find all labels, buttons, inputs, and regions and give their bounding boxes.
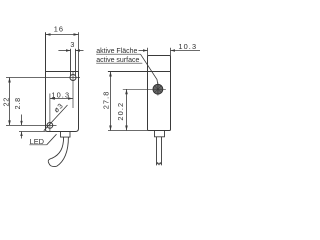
top mounting hole crosshair (70, 75, 76, 81)
side view seam line (108, 71, 171, 73)
svg-text:16: 16 (54, 25, 64, 34)
dimension 3 (58, 50, 83, 52)
active surface circle centerlines (123, 88, 166, 90)
svg-text:27.8: 27.8 (102, 91, 111, 110)
mounting slot 3mm lines (70, 49, 72, 76)
LED leader (47, 134, 57, 145)
svg-text:10.3: 10.3 (178, 42, 197, 51)
front view body outline (46, 32, 79, 131)
bottom hole centerline (6, 124, 57, 126)
active surface circle (153, 84, 163, 94)
svg-text:2.8: 2.8 (13, 97, 22, 109)
side view body outline (148, 56, 171, 131)
svg-text:3: 3 (70, 40, 74, 49)
bottom mounting hole crosshair (47, 123, 53, 129)
dimension 20.2 (126, 89, 128, 130)
27.8 bottom extension (108, 130, 148, 132)
side cable (157, 137, 162, 165)
svg-text:20.2: 20.2 (116, 102, 125, 121)
dimension 27.8 (110, 72, 112, 131)
top hole centerline (22 extension) (6, 77, 80, 79)
dimension 16 (46, 32, 79, 71)
front view top edge (46, 71, 79, 73)
dimension 10.3 front (50, 98, 73, 100)
dimension 22 (9, 78, 11, 126)
svg-text:ø3: ø3 (52, 101, 65, 114)
leader diameter 3 (44, 105, 68, 131)
front cable gland (61, 132, 71, 138)
front cable end cut (48, 158, 57, 166)
dimension 10.3 side (139, 48, 201, 56)
dimension 2.8 (21, 115, 23, 139)
bottom edge extension (19, 131, 46, 133)
side cable gland (155, 131, 165, 137)
svg-text:22: 22 (1, 97, 10, 106)
LED underline (29, 144, 46, 146)
label leader to active surface (141, 54, 158, 84)
svg-text:10.3: 10.3 (51, 91, 70, 100)
front cable (52, 137, 64, 158)
